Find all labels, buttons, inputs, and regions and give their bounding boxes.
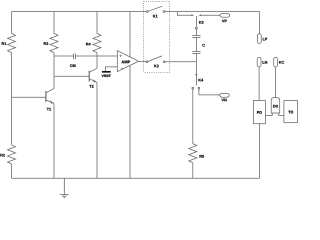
switch K4 left contact: [192, 87, 194, 89]
wire capacitor C middle: [195, 38, 197, 52]
source VP: [219, 14, 229, 18]
wire K4 to R5: [192, 89, 194, 144]
wire DK leg right: [279, 113, 284, 116]
label KC: [279, 61, 284, 64]
wire T1 base: [12, 96, 46, 98]
wire top rail: [12, 11, 147, 13]
block PD: [253, 101, 265, 124]
resistor R4: [93, 33, 101, 52]
label R3: [44, 42, 48, 45]
label VN: [222, 99, 227, 102]
wire R4 column top: [96, 12, 98, 34]
label R2: [0, 154, 4, 157]
label LN: [263, 61, 268, 64]
wire AMP top supply: [129, 12, 131, 58]
label DK: [273, 105, 278, 108]
transistor T1 emitter: [46, 100, 54, 104]
label T2: [89, 85, 93, 88]
switch K3 common contact: [196, 27, 198, 29]
label PD: [257, 111, 262, 114]
wire T2 emitter column: [96, 82, 98, 178]
label R4: [86, 43, 91, 46]
transistor T2 collector: [89, 68, 97, 72]
label CM: [70, 64, 75, 67]
op-amp AMP plus input mark: [119, 55, 121, 57]
lamp LP: [257, 34, 261, 44]
wire LN to PD: [258, 67, 260, 101]
wire R4 bottom: [96, 53, 98, 56]
resistor R3: [50, 33, 58, 52]
transistor T2 base bar: [88, 71, 90, 82]
label AMP: [121, 61, 130, 64]
wire K3 left branch: [178, 12, 192, 16]
switch K1 blade: [148, 6, 162, 11]
reference VREF bar: [102, 71, 111, 73]
wire T2 collector column: [96, 56, 98, 68]
wire K2 to node: [165, 61, 196, 63]
switch K3 blade: [195, 16, 197, 27]
wire DK leg left: [265, 113, 272, 116]
block DK: [271, 97, 280, 113]
wire T1 emitter column: [53, 103, 55, 178]
op-amp AMP minus input mark: [121, 67, 124, 69]
wire CM line right to AMP+: [76, 55, 117, 57]
wire C to K4 blade: [195, 54, 197, 86]
capacitor CM: [74, 54, 76, 60]
label R1: [2, 42, 6, 45]
label VREF: [102, 75, 111, 77]
wire node to capacitor C: [195, 29, 197, 35]
transistor T1 base bar: [45, 91, 47, 102]
wire bottom rail: [12, 177, 260, 179]
dashed enclosure K1 K2: [144, 1, 170, 72]
ground: [60, 178, 69, 198]
switch K3 left throw arrow: [191, 14, 194, 16]
wire R1 column top: [11, 12, 13, 34]
label C: [202, 44, 204, 47]
wire R3 to T1 collector: [53, 53, 55, 89]
switch K1 left contact: [146, 11, 148, 13]
source VN: [219, 93, 229, 97]
switch K2 blade: [148, 56, 162, 62]
label TD: [288, 111, 293, 114]
capacitor C lower plates: [192, 52, 200, 54]
wire R3 column top: [53, 12, 55, 34]
resistor R2: [8, 145, 16, 164]
switch K2 right contact: [163, 61, 165, 63]
wire R2 bottom: [11, 164, 13, 178]
wire K4 to VN: [199, 89, 219, 95]
op-amp AMP: [117, 51, 138, 72]
wire K1 to LP corner: [165, 11, 260, 13]
label K1: [153, 15, 157, 18]
resistor R1: [8, 33, 16, 52]
label K3: [199, 21, 203, 24]
transistor T2 emitter arrow: [93, 79, 96, 83]
circuit schematic figure: [0, 0, 300, 200]
wire AMP output: [139, 60, 147, 62]
wire CM line left: [54, 55, 73, 57]
label R5: [200, 155, 204, 158]
resistor R5: [189, 144, 197, 163]
wire T2 base line: [54, 75, 89, 77]
switch K2 left contact: [146, 61, 148, 63]
wire corner to LP: [259, 12, 261, 34]
wire K3 to VP: [201, 14, 219, 16]
switch K1 right contact: [163, 11, 165, 13]
label K4: [199, 79, 204, 82]
label T1: [47, 108, 51, 111]
transistor T2 emitter: [89, 79, 97, 83]
label K2: [154, 65, 158, 68]
transistor T1 collector: [46, 89, 54, 93]
switch K4 blade arrow: [195, 74, 197, 77]
block TD: [284, 101, 298, 123]
wire R5 bottom: [192, 163, 194, 178]
reference VREF lead: [105, 67, 117, 71]
transistor T1 emitter arrow: [50, 100, 53, 104]
wire KC to DK: [275, 67, 277, 98]
switch K4 right contact: [198, 87, 200, 89]
label LP: [263, 38, 267, 41]
lamp LN: [257, 57, 261, 67]
wire AMP bottom supply: [129, 65, 131, 178]
wire PD to bottom rail: [258, 124, 260, 179]
label VP: [222, 20, 227, 23]
capacitor C upper plates: [192, 36, 200, 38]
wire R1-R2 column: [11, 53, 13, 145]
lamp KC: [274, 57, 278, 67]
switch K3 right throw arrow: [199, 14, 202, 16]
